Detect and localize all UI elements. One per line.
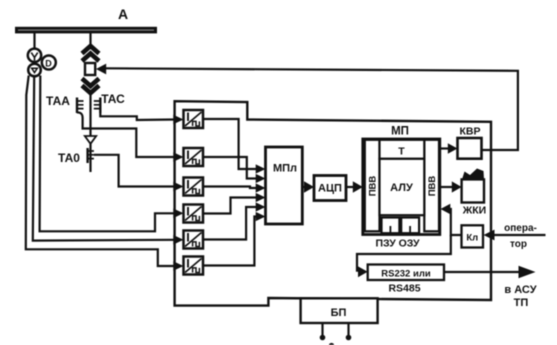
wire box6 to multiplexer	[203, 217, 256, 266]
LCD backlight mark	[462, 169, 484, 180]
input transducer box 6	[184, 257, 204, 275]
svg-text:опера-: опера-	[504, 223, 537, 234]
wire KVR to breaker (trip loop)	[106, 68, 518, 150]
wire RS to ASU TP	[444, 271, 520, 273]
svg-text:в АСУ: в АСУ	[504, 284, 536, 296]
multiplexer input arrows (6)	[256, 164, 266, 221]
wire feeder lower end	[89, 144, 91, 172]
ADC block ACP	[314, 176, 346, 201]
svg-text:ТП: ТП	[514, 297, 529, 309]
microprocessor block MP	[363, 139, 440, 235]
circuit breaker Q (disconnector chevrons + square)	[82, 46, 99, 93]
label operator	[504, 223, 537, 250]
wire keyboard to MP	[450, 209, 462, 235]
keyboard block Kl	[462, 225, 484, 247]
input transducer box 5	[184, 231, 204, 249]
svg-text:D: D	[45, 59, 52, 69]
arrow to ASU TP	[519, 266, 536, 278]
arrow into MP	[353, 181, 363, 193]
arrow into ADC	[304, 181, 314, 193]
busbar A	[15, 27, 157, 34]
serial port block RS232/RS485	[368, 265, 444, 281]
wire box5 to multiplexer	[203, 207, 256, 240]
LCD block ZhKI	[462, 179, 484, 202]
svg-text:Кл: Кл	[466, 233, 478, 244]
device enclosure (big box)	[175, 101, 491, 305]
open triangle on feeder (cable mark)	[85, 136, 96, 144]
arrow into LCD	[452, 181, 462, 192]
wire VT secondary lead 2 (middle) to input box 5	[33, 76, 174, 240]
arrow into KVR	[448, 143, 458, 153]
trip arrowhead into breaker	[96, 64, 106, 75]
svg-text:АЛУ: АЛУ	[390, 182, 413, 194]
multiplexer MPl	[266, 147, 303, 224]
wire busbar to voltage transformer	[33, 33, 35, 50]
wire MP to KVR	[440, 147, 449, 149]
svg-text:ПВВ: ПВВ	[427, 176, 438, 197]
wire TAA to input box 2	[83, 118, 174, 157]
svg-text:МПл: МПл	[273, 163, 297, 175]
wire TA0 to input box 3	[94, 155, 174, 187]
RAM block (OZU)	[401, 218, 419, 234]
svg-text:МП: МП	[391, 126, 409, 138]
svg-text:ПЗУ ОЗУ: ПЗУ ОЗУ	[375, 238, 420, 250]
clipped terminal mark at bottom edge	[329, 343, 334, 345]
power supply terminal 2	[346, 323, 352, 340]
voltage transformer TV (three windings)	[28, 49, 56, 77]
wire MP bus to serial port	[357, 235, 451, 272]
input transducer box 1	[184, 110, 204, 128]
wire feeder below breaker	[89, 92, 91, 136]
wire MPl to ADC	[302, 186, 305, 188]
wire box4 to multiplexer	[203, 198, 256, 214]
arrow into input box 1	[173, 115, 183, 125]
arrow into input box 4	[173, 209, 183, 219]
input transducer box 2	[184, 148, 204, 166]
wire from operator	[493, 234, 546, 236]
svg-text:ТАА: ТАА	[46, 94, 70, 108]
timer T	[380, 140, 425, 159]
ALU	[380, 159, 425, 215]
wire ADC to MP	[346, 186, 353, 188]
input transducer box 3	[184, 178, 204, 196]
input transducer box 4	[184, 205, 204, 223]
svg-text:ЖКИ: ЖКИ	[462, 205, 486, 217]
arrow into RS block	[358, 266, 368, 277]
power supply terminal 1	[320, 323, 326, 340]
arrow operator into Kl	[484, 230, 495, 241]
ROM block (PZU)	[382, 218, 400, 234]
svg-text:Т: Т	[398, 146, 405, 158]
current transformer TAA	[77, 98, 84, 119]
svg-text:ТАС: ТАС	[101, 92, 125, 106]
port PVV left	[365, 140, 380, 232]
svg-text:А: А	[118, 6, 128, 22]
svg-text:АЦП: АЦП	[318, 183, 342, 195]
svg-text:тор: тор	[510, 239, 527, 250]
wire box2 to multiplexer	[203, 157, 256, 179]
arrow into input box 3	[173, 182, 183, 192]
label v ASU TP	[504, 284, 536, 309]
power supply block BP	[301, 298, 378, 323]
svg-text:БП: БП	[331, 307, 347, 319]
wire box3 to multiplexer	[203, 187, 256, 189]
wire VT secondary lead 3 (inner) to input box 4	[40, 76, 174, 232]
arrow keyboard into MP	[441, 204, 451, 214]
current transformer TAC	[94, 98, 101, 114]
output relay block KVR	[458, 138, 482, 159]
svg-text:ТА0: ТА0	[58, 151, 80, 165]
svg-text:КВР: КВР	[460, 126, 481, 138]
svg-text:RS232 или: RS232 или	[381, 269, 431, 280]
wire busbar to circuit breaker	[89, 33, 91, 47]
arrow into input box 6	[173, 261, 183, 271]
wire MP to LCD	[440, 186, 452, 188]
svg-text:RS485: RS485	[388, 283, 420, 295]
wire box1 to multiplexer	[203, 119, 256, 169]
current transformer TA0	[88, 148, 94, 163]
wire VT secondary lead 1 (outer) to input box 6	[26, 76, 174, 267]
port PVV right	[424, 140, 439, 232]
arrow into input box 5	[173, 235, 183, 245]
svg-text:ПВВ: ПВВ	[368, 176, 379, 197]
arrow into input box 2	[173, 152, 183, 162]
wire TAC to input box 1	[100, 113, 174, 120]
